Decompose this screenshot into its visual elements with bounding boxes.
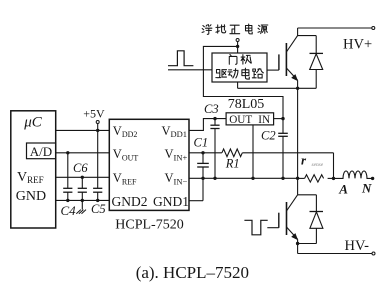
svg-text:μC: μC [23,114,43,130]
svg-text:+5V: +5V [83,107,105,121]
svg-text:R1: R1 [225,156,240,170]
svg-text:A/D: A/D [30,144,52,159]
svg-text:C4: C4 [61,203,77,218]
svg-text:N: N [361,181,372,196]
svg-text:GND1: GND1 [153,194,189,209]
svg-text:C5: C5 [91,202,106,216]
svg-text:C1: C1 [194,135,209,149]
svg-text:HV-: HV- [345,238,370,254]
svg-text:C6: C6 [73,161,88,175]
svg-text:78L05: 78L05 [228,97,265,112]
svg-text:HV+: HV+ [343,36,372,52]
svg-text:IN: IN [258,114,270,126]
svg-text:A: A [338,182,348,197]
svg-text:C3: C3 [204,102,219,116]
svg-text:GND: GND [16,189,46,204]
svg-text:HCPL-7520: HCPL-7520 [115,217,183,232]
svg-text:sense: sense [312,162,324,168]
svg-text:(a). HCPL–7520: (a). HCPL–7520 [136,263,249,282]
svg-text:C2: C2 [261,129,276,143]
svg-text:OUT: OUT [229,114,252,126]
svg-text:GND2: GND2 [112,194,148,209]
